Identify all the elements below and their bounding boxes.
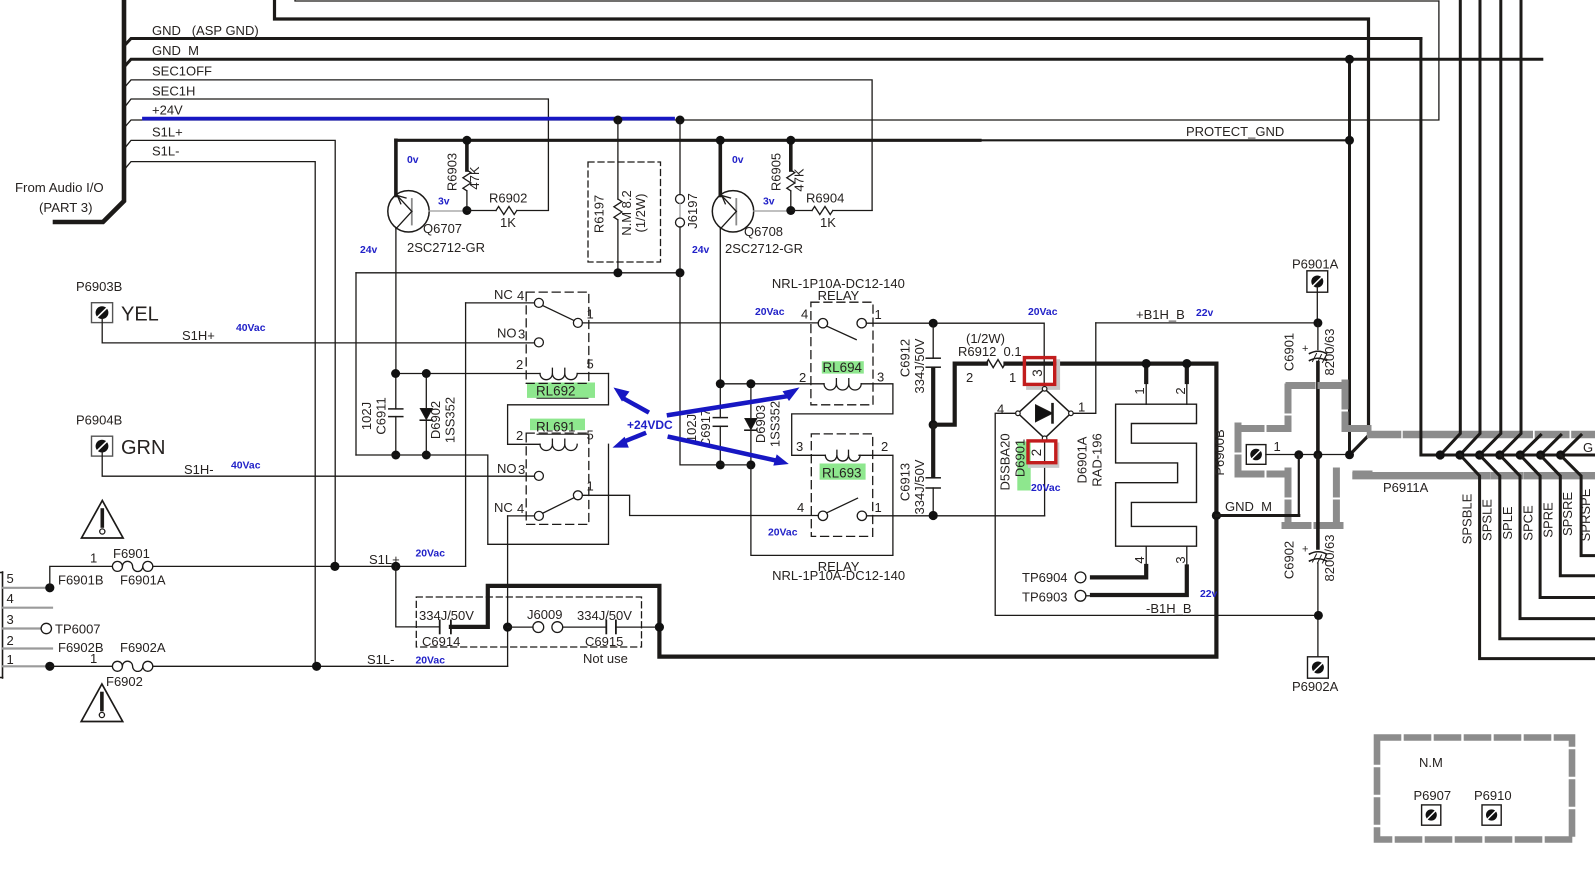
- wire SPCE: [1520, 455, 1595, 598]
- wire C6917 D6903 bottom rail to RL693 coil pin2: [680, 273, 751, 465]
- svg-text:P6901A: P6901A: [1292, 257, 1339, 272]
- svg-text:D6901A: D6901A: [1075, 436, 1090, 483]
- svg-text:R6905: R6905: [769, 153, 784, 191]
- wire D6902 bottom rail to RL691 pin5: [356, 444, 609, 544]
- svg-text:40Vac: 40Vac: [231, 461, 261, 472]
- wire RL692 pin5 S-route to RL691 pin2: [508, 374, 609, 445]
- svg-text:C6912: C6912: [898, 339, 913, 377]
- node S1L- bus junction: [312, 662, 321, 671]
- svg-text:3: 3: [1030, 369, 1045, 376]
- capacitor C6902 8200/63: [1316, 455, 1320, 548]
- svg-text:D6901: D6901: [1013, 439, 1028, 477]
- relay RL691 NO contact: [534, 471, 543, 480]
- relay RL691 lever and pin1: [543, 498, 574, 513]
- transistor Q6708: [718, 140, 722, 195]
- node GND_M on thick vertical: [1212, 511, 1221, 520]
- wire GND_M: [124, 59, 1542, 67]
- label RL693: [820, 464, 866, 480]
- node D6902 bottom: [422, 451, 431, 460]
- svg-text:RAD-196: RAD-196: [1090, 433, 1105, 486]
- svg-text:47K: 47K: [792, 168, 807, 191]
- svg-text:4: 4: [517, 288, 524, 303]
- svg-text:4: 4: [997, 402, 1004, 417]
- connector bus P6911A bottom bar: [1356, 472, 1595, 479]
- svg-text:F6902: F6902: [106, 674, 143, 689]
- relay RL692 lever and pin1: [543, 306, 574, 321]
- svg-text:Q6707: Q6707: [423, 221, 462, 236]
- svg-text:4: 4: [797, 500, 804, 515]
- svg-text:1SS352: 1SS352: [768, 401, 783, 447]
- svg-text:F6902A: F6902A: [120, 640, 166, 655]
- diode D6903 1SS352: [750, 384, 752, 418]
- relay RL694 pin 1: [857, 319, 866, 328]
- wire S1L+ branch to C6914: [396, 566, 440, 627]
- relay RL691 NC contact: [534, 511, 543, 520]
- node C6911 top: [391, 369, 400, 378]
- svg-text:C6917: C6917: [698, 409, 713, 447]
- fuse F6901: [50, 566, 113, 587]
- svg-text:GRN: GRN: [121, 437, 165, 459]
- node J6197 bottom junction: [676, 268, 685, 277]
- svg-text:SPCE: SPCE: [1520, 505, 1535, 541]
- wire top edge +24V feed: [295, 0, 1439, 1]
- svg-text:C6902: C6902: [1282, 541, 1297, 579]
- svg-text:SPSRE: SPSRE: [1560, 492, 1575, 536]
- label +B1H_B: [1096, 322, 1318, 324]
- red pin box 3: [1028, 361, 1058, 388]
- svg-text:3: 3: [518, 462, 525, 477]
- svg-text:+24V: +24V: [152, 103, 183, 118]
- svg-text:24v: 24v: [692, 245, 710, 256]
- svg-text:(PART 3): (PART 3): [39, 200, 93, 215]
- svg-text:1: 1: [875, 500, 882, 515]
- svg-text:1: 1: [1009, 370, 1016, 385]
- wire GND_M vertical drop to speaker gnd: [1348, 59, 1351, 455]
- svg-text:P6907: P6907: [1414, 788, 1452, 803]
- svg-text:3: 3: [7, 612, 14, 627]
- svg-text:47K: 47K: [467, 166, 482, 189]
- wire SPLE: [1500, 455, 1595, 619]
- wire +24V blue highlight: [144, 117, 673, 121]
- svg-text:1: 1: [875, 307, 882, 322]
- resistor R6912 0.1 (1/2W): [933, 364, 986, 425]
- heatsink D6901A RAD-196: [1116, 404, 1197, 546]
- wire +24V: [124, 1, 1439, 128]
- node gnd dots: [1436, 450, 1566, 459]
- svg-text:SPRE: SPRE: [1541, 502, 1556, 538]
- svg-text:SPRSPE: SPRSPE: [1578, 488, 1593, 541]
- node +B1H_B junction: [1313, 318, 1322, 327]
- svg-text:20Vac: 20Vac: [1028, 307, 1058, 318]
- wire S1L- line: [153, 665, 508, 667]
- bridge rectifier D6901 D5SBA20: [1018, 389, 1071, 439]
- svg-text:C6901: C6901: [1282, 333, 1297, 371]
- svg-text:C6915: C6915: [585, 634, 623, 649]
- svg-text:1: 1: [7, 652, 14, 667]
- test point TP6903: [1075, 590, 1086, 601]
- transistor Q6707: [394, 140, 398, 195]
- wire SEC1OFF: [124, 80, 872, 211]
- svg-text:20Vac: 20Vac: [768, 528, 798, 539]
- svg-text:2: 2: [1029, 449, 1044, 456]
- svg-text:1: 1: [587, 307, 594, 322]
- node C6917 top: [716, 379, 725, 388]
- svg-text:3: 3: [877, 370, 884, 385]
- relay RL692 NC contact: [534, 298, 543, 307]
- svg-text:102J: 102J: [684, 414, 699, 442]
- svg-text:20Vac: 20Vac: [755, 307, 785, 318]
- svg-text:F6901: F6901: [113, 546, 150, 561]
- svg-text:SEC1OFF: SEC1OFF: [152, 64, 212, 79]
- svg-text:+: +: [1302, 343, 1308, 355]
- wire SEC1H: [124, 99, 548, 210]
- svg-text:S1L-: S1L-: [152, 144, 179, 159]
- node -B1H_B junction: [1314, 611, 1323, 620]
- resistor R6905 47K: [789, 140, 793, 170]
- connector P6900B gray cross: [1238, 383, 1369, 526]
- svg-text:NC: NC: [494, 287, 513, 302]
- svg-text:NC: NC: [494, 500, 513, 515]
- svg-text:334J/50V: 334J/50V: [912, 459, 927, 514]
- node Q6707 collector junction: [462, 136, 471, 145]
- wire RL692 pin1 to RL694 contact (20Vac): [582, 322, 818, 324]
- svg-text:R6902: R6902: [489, 191, 527, 206]
- wire RL694 pin3 S-route to RL693 pin3: [792, 384, 893, 456]
- svg-text:3: 3: [796, 439, 803, 454]
- node pad line GND riser: [1294, 450, 1303, 459]
- svg-text:TP6904: TP6904: [1022, 570, 1068, 585]
- svg-text:8200/63: 8200/63: [1322, 329, 1337, 376]
- svg-text:2: 2: [516, 357, 523, 372]
- wire C6914 thick bypass bump: [451, 364, 1217, 657]
- svg-text:334J/50V: 334J/50V: [419, 608, 474, 623]
- svg-text:R6903: R6903: [445, 153, 460, 191]
- svg-text:SPSLE: SPSLE: [1480, 499, 1495, 541]
- svg-text:F6901B: F6901B: [58, 573, 104, 588]
- svg-text:From Audio I/O: From Audio I/O: [15, 180, 104, 195]
- wire S1L+ line: [153, 565, 466, 567]
- svg-text:R6912 0.1: R6912 0.1: [958, 344, 1022, 359]
- node +24V J6197 junction: [676, 116, 685, 125]
- svg-text:1: 1: [90, 651, 97, 666]
- node D6902 top: [422, 369, 431, 378]
- svg-text:J6197: J6197: [685, 193, 700, 228]
- svg-text:1: 1: [587, 479, 594, 494]
- svg-text:5: 5: [7, 571, 14, 586]
- node R6197 bottom junction: [613, 268, 622, 277]
- svg-text:2: 2: [966, 370, 973, 385]
- wire SPSLE: [1480, 455, 1595, 639]
- wire blue arrows from +24VDC: [625, 396, 787, 460]
- relay RL692 contact box: [526, 292, 589, 383]
- svg-text:SPSBLE: SPSBLE: [1459, 493, 1474, 544]
- svg-text:4: 4: [517, 501, 524, 516]
- resistor R6197 N.M box: [588, 162, 661, 262]
- svg-text:GND M: GND M: [152, 43, 199, 58]
- svg-text:RL693: RL693: [822, 466, 861, 481]
- node Q6708 collector junction: [716, 136, 725, 145]
- svg-text:20Vac: 20Vac: [1031, 483, 1061, 494]
- node GND_M junction: [1345, 55, 1354, 64]
- relay RL692 NO contact: [534, 338, 543, 347]
- capacitor C6913 334J/50V: [931, 425, 935, 477]
- wire short diagonals from bus: [1520, 435, 1540, 455]
- heatsink pin 4 to TP6904: [1145, 546, 1147, 566]
- svg-text:Q6708: Q6708: [744, 224, 783, 239]
- svg-text:R6197: R6197: [592, 195, 607, 233]
- svg-text:4: 4: [801, 307, 808, 322]
- svg-text:1: 1: [1274, 439, 1281, 454]
- svg-text:NO: NO: [497, 326, 517, 341]
- svg-text:P6900B: P6900B: [1212, 429, 1227, 475]
- svg-text:TP6007: TP6007: [55, 622, 101, 637]
- svg-text:RL692: RL692: [536, 384, 575, 399]
- label RL692: [527, 383, 595, 398]
- node C6915 right junction: [655, 623, 664, 632]
- svg-text:1: 1: [1078, 400, 1085, 415]
- node pad line C6901: [1313, 450, 1322, 459]
- svg-text:2: 2: [7, 633, 14, 648]
- node PROTECT_GND junction: [1345, 136, 1354, 145]
- wire SPRE: [1540, 455, 1595, 576]
- wire S1H+: [102, 317, 534, 343]
- svg-text:3: 3: [518, 327, 525, 342]
- relay RL693 box: [811, 434, 872, 537]
- svg-text:SEC1H: SEC1H: [152, 84, 195, 99]
- svg-text:C6914: C6914: [422, 634, 460, 649]
- capacitor C6911 102J: [395, 374, 397, 409]
- svg-text:(1/2W): (1/2W): [633, 194, 648, 233]
- svg-text:-B1H_B: -B1H_B: [1146, 601, 1192, 616]
- svg-text:22v: 22v: [1196, 308, 1214, 319]
- warning triangle upper: [82, 501, 124, 539]
- resistor R6903 47K: [465, 140, 469, 170]
- svg-text:1: 1: [1132, 387, 1147, 394]
- svg-text:3v: 3v: [438, 197, 450, 208]
- warning triangle lower: [81, 684, 123, 722]
- wire PROTECT_GND (0v collector rail): [396, 139, 980, 142]
- svg-text:102J: 102J: [359, 402, 374, 430]
- svg-text:334J/50V: 334J/50V: [577, 608, 632, 623]
- wire 20Vac top to bridge pin3: [933, 323, 1044, 386]
- svg-text:4: 4: [7, 591, 14, 606]
- node pad line main gnd: [1345, 450, 1354, 459]
- svg-text:2SC2712-GR: 2SC2712-GR: [407, 240, 485, 255]
- relay RL691 contact box: [526, 433, 589, 524]
- relay RL694 box: [811, 302, 873, 405]
- relay RL693 pin 1: [857, 511, 866, 520]
- svg-text:24v: 24v: [360, 245, 378, 256]
- node Q6707 base junction: [462, 206, 471, 215]
- connector edge pins 5..1: [2, 572, 4, 678]
- wire GND ASP collection line: [1421, 39, 1595, 456]
- svg-text:5: 5: [587, 428, 594, 443]
- svg-text:D5SBA20: D5SBA20: [998, 433, 1013, 490]
- node S1L+ C6914 branch: [391, 562, 400, 571]
- svg-text:P6911A: P6911A: [1383, 480, 1429, 495]
- svg-text:+: +: [1302, 544, 1308, 556]
- node D6903 top: [746, 379, 755, 388]
- wire GND (ASP GND): [124, 39, 1421, 47]
- svg-text:+24VDC: +24VDC: [627, 418, 673, 432]
- wire SPSRE: [1560, 455, 1595, 556]
- svg-text:20Vac: 20Vac: [416, 549, 446, 560]
- svg-text:D6903: D6903: [753, 405, 768, 443]
- svg-text:1K: 1K: [820, 215, 836, 230]
- heatsink pin 2: [1185, 364, 1189, 382]
- svg-text:PROTECT_GND: PROTECT_GND: [1186, 124, 1284, 139]
- svg-text:RL691: RL691: [536, 420, 575, 435]
- wire S1H-: [102, 451, 534, 477]
- svg-text:2: 2: [1173, 387, 1188, 394]
- svg-text:1K: 1K: [500, 215, 516, 230]
- svg-text:20Vac: 20Vac: [416, 656, 446, 667]
- heatsink pin 1: [1144, 364, 1148, 382]
- svg-text:GND (ASP GND): GND (ASP GND): [152, 23, 259, 38]
- label D6901 green highlight: [1017, 442, 1030, 491]
- svg-text:3v: 3v: [763, 197, 775, 208]
- svg-text:N.M: N.M: [1419, 755, 1443, 770]
- jumper J6197: [679, 120, 681, 195]
- svg-text:GND M: GND M: [1225, 499, 1272, 514]
- node pin1 junction: [45, 662, 54, 671]
- svg-text:P6904B: P6904B: [76, 413, 122, 428]
- svg-text:5: 5: [587, 357, 594, 372]
- node C6911 bottom: [391, 451, 400, 460]
- connector P6902A: [1308, 657, 1329, 678]
- svg-text:1SS352: 1SS352: [443, 397, 458, 443]
- node C6913 bottom junction: [929, 511, 938, 520]
- svg-text:P6910: P6910: [1474, 788, 1512, 803]
- wire speaker line verticals from top: [1440, 0, 1460, 455]
- svg-text:2: 2: [881, 439, 888, 454]
- wire SPSBLE: [1460, 455, 1595, 659]
- svg-text:334J/50V: 334J/50V: [912, 338, 927, 393]
- svg-text:P6903B: P6903B: [76, 279, 122, 294]
- node D6903 bottom: [746, 460, 755, 469]
- svg-text:NRL-1P10A-DC12-140: NRL-1P10A-DC12-140: [772, 568, 905, 583]
- node C6912 bottom junction: [929, 420, 938, 429]
- wire bridge pin2 to 20Vac bottom: [1044, 441, 1046, 516]
- svg-text:8200/63: 8200/63: [1322, 535, 1337, 582]
- svg-text:RL694: RL694: [823, 360, 863, 375]
- diode D6902 1SS352: [425, 374, 427, 409]
- svg-text:S1H+: S1H+: [182, 328, 215, 343]
- svg-text:SPLE: SPLE: [1500, 506, 1515, 540]
- capacitor C6901 8200/63: [1317, 323, 1319, 350]
- svg-text:2SC2712-GR: 2SC2712-GR: [725, 241, 803, 256]
- node S1L+ bus junction: [330, 562, 339, 571]
- svg-text:C6913: C6913: [898, 463, 913, 501]
- wire bridge pin1 to +B1H_B: [1073, 323, 1096, 413]
- svg-text:R6904: R6904: [806, 191, 844, 206]
- svg-text:NO: NO: [497, 461, 517, 476]
- capacitor C6917 102J: [719, 384, 721, 418]
- svg-text:G: G: [1583, 440, 1593, 455]
- node R6905 top junction: [786, 136, 795, 145]
- svg-text:4: 4: [1132, 556, 1147, 563]
- svg-text:D6902: D6902: [428, 401, 443, 439]
- svg-text:3: 3: [1173, 556, 1188, 563]
- svg-text:S1L-: S1L-: [367, 652, 394, 667]
- wire thick top-left L to right bundle: [275, 0, 1369, 455]
- svg-text:P6902A: P6902A: [1292, 679, 1339, 694]
- node C6912 top junction: [929, 319, 938, 328]
- box N.M bottom right: [1377, 738, 1572, 840]
- svg-text:22v: 22v: [1200, 589, 1218, 600]
- wire bridge pin4 to -B1H_B: [995, 413, 1318, 615]
- node C6917 bottom: [716, 460, 725, 469]
- svg-text:0v: 0v: [732, 155, 744, 166]
- svg-text:S1L+: S1L+: [152, 125, 183, 140]
- label RL694: [822, 361, 864, 373]
- svg-text:YEL: YEL: [121, 304, 159, 326]
- label SP wires: [1459, 488, 1593, 544]
- resistor R6904 1K: [791, 210, 812, 212]
- svg-text:2: 2: [799, 370, 806, 385]
- svg-text:F6901A: F6901A: [120, 573, 166, 588]
- node Q6708 base junction: [786, 206, 795, 215]
- svg-text:C6911: C6911: [374, 397, 389, 434]
- svg-text:0v: 0v: [407, 155, 419, 166]
- connector P6900B pin 1 pad: [1246, 445, 1266, 465]
- svg-text:N.M 8.2: N.M 8.2: [619, 190, 634, 236]
- capacitor C6915: [605, 620, 607, 633]
- svg-text:S1H-: S1H-: [184, 462, 214, 477]
- svg-text:Not use: Not use: [583, 651, 628, 666]
- resistor R6902 1K: [467, 210, 496, 212]
- capacitor C6912 334J/50V: [932, 323, 934, 358]
- svg-text:40Vac: 40Vac: [236, 323, 266, 334]
- connector bus P6911A top bar: [1371, 431, 1595, 438]
- heatsink pin 3 to TP6903: [1186, 546, 1188, 566]
- wire relay-coil feed rail y272.8: [356, 272, 680, 274]
- test point TP6007: [41, 623, 51, 633]
- svg-text:J6009: J6009: [527, 607, 562, 622]
- label RL691: [530, 419, 585, 431]
- svg-text:TP6903: TP6903: [1022, 590, 1068, 605]
- svg-text:+B1H_B: +B1H_B: [1136, 307, 1185, 322]
- bus from Audio I/O (PART 3): [55, 0, 124, 222]
- wire P6900B pad line: [1266, 454, 1350, 457]
- wire S1L-: [124, 162, 315, 667]
- svg-text:RELAY: RELAY: [818, 288, 860, 303]
- svg-text:1: 1: [90, 551, 97, 566]
- node +24V R6197 junction: [613, 116, 622, 125]
- svg-text:2: 2: [516, 428, 523, 443]
- test point TP6904: [1075, 572, 1086, 583]
- wire RL691 pin1 to RL693 contact: [582, 495, 818, 515]
- node pin5 junction: [45, 583, 54, 592]
- capacitor C6914 box: [416, 597, 641, 647]
- jumper J6009: [503, 623, 512, 632]
- wire S1L+: [124, 140, 335, 566]
